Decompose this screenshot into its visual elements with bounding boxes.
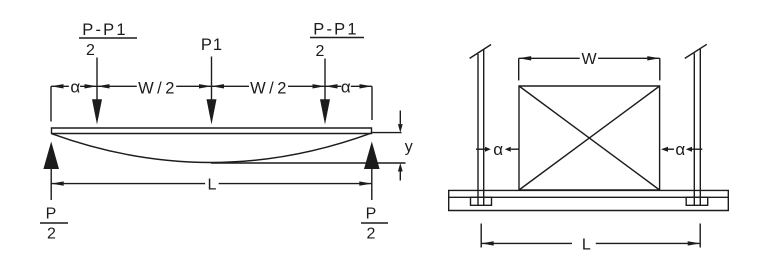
right rod right edge (699, 49, 701, 205)
y dim lower arrowhead (398, 163, 403, 172)
a dim left arrow 2 (505, 147, 511, 152)
top dim line seg 5 (a right) (351, 85, 372, 87)
W dim arrow left (519, 56, 532, 60)
svg-text:α: α (675, 140, 685, 159)
dim arrow left of load 2 (199, 84, 212, 88)
load 1 arrowhead (92, 99, 102, 124)
svg-text:y: y (405, 139, 413, 156)
top dim line seg 1 (a left) (51, 85, 69, 87)
top dim line seg 3 (center) (176, 85, 249, 87)
base plate inner line (449, 196, 729, 198)
left rod break slash (470, 45, 492, 59)
fraction bar left load (79, 37, 137, 39)
dim arrow at right extension (360, 84, 373, 88)
right reaction arrowhead (up) (364, 142, 380, 170)
a dim left tail over rod (476, 148, 485, 150)
left extension line (50, 86, 52, 121)
a dim right arrow 1 (661, 147, 668, 152)
y dim upper arrow line (399, 111, 401, 125)
fraction bar left reaction (40, 222, 68, 224)
block diagonal 2 (519, 86, 660, 190)
a dim left arrow 1 (485, 147, 491, 152)
y dim upper reference line (372, 132, 402, 134)
left clamp block (471, 197, 492, 205)
svg-text:α: α (493, 140, 503, 159)
svg-text:α: α (70, 78, 80, 97)
svg-text:2: 2 (367, 226, 376, 243)
y dim lower reference line (tangent to max deflection) (211, 162, 406, 164)
load 1 force line (96, 58, 98, 100)
right reaction line (371, 169, 373, 200)
L dim right extension (699, 224, 701, 248)
load 3 arrowhead (320, 99, 330, 124)
svg-text:W/2: W/2 (138, 80, 178, 98)
W dim right extension (659, 58, 661, 80)
svg-text:2: 2 (47, 226, 56, 243)
svg-text:P: P (46, 206, 57, 223)
svg-text:L: L (582, 237, 591, 254)
fraction bar right load (310, 37, 364, 39)
a dim right arrow 2 (686, 147, 692, 152)
span dim arrow left (51, 181, 64, 185)
dim arrow right of load 1 (97, 84, 110, 88)
block W (top view) (519, 86, 660, 190)
dim arrow left of load 1 (85, 84, 98, 88)
fraction bar right reaction (361, 222, 388, 224)
load 2 arrowhead (207, 99, 217, 124)
left rod right edge (483, 50, 485, 206)
svg-text:W/2: W/2 (250, 80, 290, 98)
top dim line seg 2 (80, 85, 137, 87)
beam (leaf spring, side view) (52, 128, 372, 134)
deflected shape curve (52, 133, 371, 162)
svg-text:2: 2 (86, 42, 95, 59)
span dim line left segment (51, 183, 205, 185)
span dim line right segment (219, 183, 372, 185)
base plate (plan support) (449, 190, 729, 210)
dim arrow left of load 3 (313, 84, 326, 88)
right extension line (371, 86, 373, 120)
left reaction arrowhead (up) (43, 142, 59, 170)
svg-text:P: P (366, 206, 377, 223)
L dim arrow right (688, 241, 701, 245)
span dim arrow right (359, 181, 372, 185)
load 2 force line (211, 57, 213, 100)
L dim line left segment (481, 242, 572, 244)
dim arrow right of load 2 (212, 84, 225, 88)
a dim right tail over rod (692, 148, 702, 150)
a dim left tail to block (511, 148, 519, 150)
svg-text:α: α (341, 78, 351, 97)
W dim line right segment (598, 57, 660, 59)
svg-text:P-P1: P-P1 (82, 21, 127, 39)
svg-text:P1: P1 (201, 36, 223, 54)
L dim arrow left (481, 241, 494, 245)
L dim left extension (480, 224, 482, 248)
dim arrow at left extension (51, 84, 64, 88)
right rod break slash (685, 44, 707, 58)
W dim line left segment (519, 57, 580, 59)
dim arrow right of load 3 (325, 84, 338, 88)
W dim left extension (518, 58, 520, 80)
block diagonal 1 (519, 86, 660, 190)
left reaction line (50, 169, 52, 200)
right rod left edge (693, 53, 695, 205)
load 3 force line (324, 59, 326, 100)
svg-text:2: 2 (316, 43, 325, 60)
W dim arrow right (647, 56, 660, 60)
y dim lower arrow line (399, 171, 401, 180)
top dim line seg 4 (288, 85, 341, 87)
L dim line right segment (596, 242, 700, 244)
svg-text:P-P1: P-P1 (313, 21, 358, 39)
left rod left edge (477, 54, 479, 206)
a dim right line to text (668, 148, 674, 150)
right clamp block (686, 197, 708, 205)
y dim upper arrowhead (398, 124, 403, 133)
svg-text:L: L (208, 177, 217, 194)
svg-text:W: W (581, 51, 597, 68)
